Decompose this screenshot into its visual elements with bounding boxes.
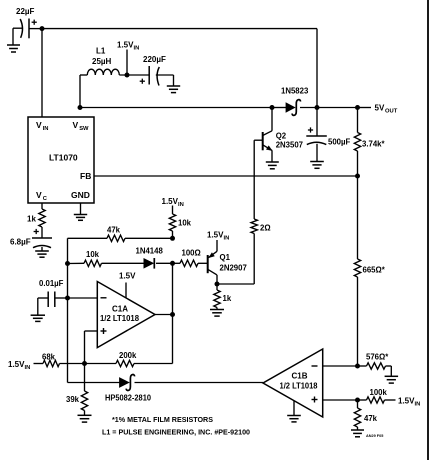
svg-text:22µF: 22µF bbox=[16, 7, 35, 16]
svg-text:1N5823: 1N5823 bbox=[281, 87, 309, 96]
wire 100Ω to Q1 base bbox=[198, 262, 208, 264]
svg-text:GND: GND bbox=[71, 190, 90, 200]
svg-text:1.5V: 1.5V bbox=[207, 231, 224, 240]
node 5V output bbox=[355, 105, 360, 110]
svg-text:47k: 47k bbox=[107, 226, 121, 235]
svg-text:665Ω*: 665Ω* bbox=[363, 266, 386, 275]
wire L1 left lead bbox=[80, 75, 87, 108]
node Q1 collector bbox=[215, 282, 220, 287]
svg-text:1k: 1k bbox=[27, 215, 36, 224]
wire 500µF top lead bbox=[316, 108, 318, 137]
node VIN top bbox=[40, 26, 45, 31]
wire 200k left lead bbox=[85, 363, 117, 365]
svg-text:1.5V: 1.5V bbox=[119, 272, 136, 281]
node Q2 collector tap bbox=[270, 105, 275, 110]
svg-text:IN: IN bbox=[415, 402, 421, 408]
node L1/1.5VIN bbox=[125, 73, 130, 78]
wire rail segment bbox=[317, 107, 358, 109]
wire 47k bottom lead bbox=[357, 427, 359, 430]
svg-text:100Ω: 100Ω bbox=[182, 249, 201, 258]
svg-text:0.01µF: 0.01µF bbox=[39, 279, 64, 288]
wire 5VOUT lead bbox=[358, 107, 372, 109]
wire GND pin bbox=[80, 203, 82, 215]
wire FB line bbox=[94, 175, 358, 177]
svg-text:500µF: 500µF bbox=[328, 138, 351, 147]
wire 500µF bottom lead bbox=[316, 144, 318, 162]
diode D3 HP5082-2810 bbox=[105, 375, 152, 403]
wire output column bbox=[134, 263, 173, 363]
ground 22µF bbox=[7, 45, 20, 52]
svg-text:1k: 1k bbox=[223, 294, 232, 303]
wire C1B minus input bbox=[323, 365, 358, 367]
svg-text:SW: SW bbox=[79, 126, 89, 132]
svg-text:AN29 F05: AN29 F05 bbox=[366, 434, 383, 438]
wire 0.01µF left lead bbox=[38, 298, 48, 315]
wire rail to diode bbox=[272, 107, 286, 109]
label notes bbox=[102, 415, 250, 437]
ground Q1 1k bbox=[210, 310, 224, 317]
resistor R-VC 1k bbox=[27, 209, 45, 227]
op-amp C1B 1/2 LT1018 bbox=[263, 349, 323, 417]
wire 68k right lead bbox=[60, 363, 85, 365]
svg-text:2N3507: 2N3507 bbox=[276, 141, 303, 150]
svg-text:220µF: 220µF bbox=[143, 55, 166, 64]
ground 6.8µF bbox=[35, 251, 49, 257]
op-amp C1A 1/2 LT1018 bbox=[97, 282, 155, 348]
wire 1k to 6.8µF bbox=[41, 227, 43, 238]
wire 6.8µF to ground bbox=[41, 247, 43, 251]
node 47k/output col top bbox=[170, 236, 175, 241]
svg-text:C1A: C1A bbox=[112, 305, 128, 314]
svg-text:*1% METAL FILM RESISTORS: *1% METAL FILM RESISTORS bbox=[112, 415, 213, 424]
node comparator output col bbox=[170, 261, 175, 266]
node 10k left bbox=[65, 261, 70, 266]
svg-text:2Ω: 2Ω bbox=[260, 224, 271, 233]
wire 47k line right bbox=[125, 237, 173, 239]
wire 0.01µF right lead bbox=[55, 297, 98, 299]
label figure number bbox=[366, 434, 383, 438]
ground 500µF bbox=[310, 162, 324, 169]
node FB junction bbox=[355, 174, 360, 179]
wire 1k to ground bbox=[216, 308, 218, 310]
svg-text:10k: 10k bbox=[86, 250, 100, 259]
wire 2Ω to Q1 collector bbox=[217, 234, 254, 285]
wire 22µF left lead bbox=[13, 28, 22, 45]
wire C1B V- tick bbox=[293, 401, 295, 416]
wire C1A output bbox=[155, 314, 173, 316]
ground 0.01µF bbox=[31, 315, 45, 321]
resistor R14 47k (C1B) bbox=[354, 408, 377, 427]
transistor Q2 2N3507 bbox=[263, 108, 303, 163]
node VSW/L1 bbox=[78, 105, 83, 110]
resistor R9 68k bbox=[42, 353, 60, 367]
svg-text:1.5V: 1.5V bbox=[8, 360, 25, 369]
wire diode to node bbox=[300, 107, 317, 109]
svg-text:V: V bbox=[36, 120, 42, 130]
capacitor C2 220µF bbox=[140, 55, 166, 86]
border right edge bbox=[427, 0, 429, 460]
svg-text:200k: 200k bbox=[119, 351, 137, 360]
wire 10k to node bbox=[172, 231, 174, 238]
svg-text:V: V bbox=[36, 190, 42, 200]
svg-text:IN: IN bbox=[178, 202, 184, 208]
node C1A output bbox=[170, 312, 175, 317]
ground LT1070 GND bbox=[74, 215, 87, 221]
wire 68k left lead bbox=[34, 363, 44, 365]
ground 576Ω bbox=[385, 376, 399, 383]
svg-text:HP5082-2810: HP5082-2810 bbox=[105, 394, 152, 403]
diode D2 1N4148 bbox=[136, 247, 164, 269]
wire 47k top lead bbox=[357, 400, 359, 408]
wire minus col to diode bbox=[68, 382, 120, 384]
wire C1A supply tick bbox=[125, 283, 127, 299]
wire C1A plus input bbox=[85, 331, 98, 364]
wire C1B plus input bbox=[323, 399, 358, 401]
node top-rail join bbox=[315, 105, 320, 110]
svg-text:L1 = PULSE ENGINEERING, INC. #: L1 = PULSE ENGINEERING, INC. #PE-92100 bbox=[102, 427, 250, 436]
capacitor C3 6.8µF bbox=[10, 229, 52, 248]
resistor R7 100Ω bbox=[180, 249, 201, 267]
svg-text:1.5V: 1.5V bbox=[162, 197, 179, 206]
resistor R2 2Ω bbox=[251, 219, 271, 234]
label 1.5VIN (68k) bbox=[8, 360, 30, 371]
svg-text:L1: L1 bbox=[96, 47, 106, 56]
wire Q1 1k lead bbox=[216, 284, 218, 290]
ground 47k bbox=[351, 430, 364, 437]
ground 39k bbox=[78, 415, 92, 422]
capacitor C5 0.01µF bbox=[39, 279, 64, 307]
svg-text:10k: 10k bbox=[178, 219, 192, 228]
resistor R1 3.74k* bbox=[354, 133, 385, 152]
ground Q2 emitter bbox=[266, 162, 279, 169]
wire 100k left lead bbox=[358, 399, 367, 401]
wire 665 top lead bbox=[357, 176, 359, 259]
wire 22µF right lead bbox=[29, 28, 42, 30]
svg-text:IN: IN bbox=[134, 46, 140, 52]
svg-text:47k: 47k bbox=[364, 414, 378, 423]
node C1B plus bbox=[355, 398, 360, 403]
wire top rail bbox=[42, 29, 317, 108]
capacitor C4 500µF bbox=[306, 127, 350, 146]
ground C1B bbox=[287, 416, 301, 422]
wire 10k left lead bbox=[68, 262, 85, 264]
resistor R13 100k bbox=[367, 388, 388, 403]
wire 10k to diode bbox=[102, 262, 144, 264]
wire 10k tick bbox=[172, 206, 174, 215]
resistor R10 39k bbox=[66, 391, 88, 411]
resistor R4 10k (pullup) bbox=[169, 214, 191, 231]
svg-text:68k: 68k bbox=[42, 353, 56, 362]
label 1.5V (C1A supply) bbox=[119, 272, 136, 281]
svg-text:5V: 5V bbox=[375, 104, 385, 113]
resistor R12 576Ω* bbox=[366, 353, 389, 370]
inductor L1 25µH bbox=[87, 47, 119, 76]
svg-text:1/2 LT1018: 1/2 LT1018 bbox=[280, 382, 319, 391]
node minus input bbox=[65, 296, 70, 301]
svg-text:OUT: OUT bbox=[385, 109, 398, 115]
wire left column bbox=[67, 264, 69, 383]
svg-text:IN: IN bbox=[224, 236, 230, 242]
capacitor C1 22µF bbox=[16, 7, 37, 38]
wire 100Ω left lead bbox=[173, 262, 181, 264]
resistor R5 47k bbox=[107, 226, 125, 242]
diode D1 1N5823 bbox=[281, 87, 309, 116]
svg-text:6.8µF: 6.8µF bbox=[10, 238, 31, 247]
svg-text:IN: IN bbox=[43, 126, 49, 132]
svg-text:1.5V: 1.5V bbox=[117, 41, 134, 50]
wire 39k bottom lead bbox=[84, 411, 86, 416]
resistor R11 665Ω* bbox=[354, 259, 385, 277]
wire L1 right lead bbox=[119, 74, 149, 76]
svg-text:3.74k*: 3.74k* bbox=[362, 140, 386, 149]
svg-text:100k: 100k bbox=[370, 388, 388, 397]
wire 220µF right lead bbox=[156, 75, 174, 86]
svg-text:576Ω*: 576Ω* bbox=[366, 353, 389, 362]
resistor R3 1k (Q1) bbox=[214, 290, 232, 308]
wire 39k top lead bbox=[84, 364, 86, 392]
node plus input junction bbox=[82, 361, 87, 366]
svg-text:Q2: Q2 bbox=[276, 132, 287, 141]
wire 47k line left bbox=[68, 238, 108, 263]
resistor R8 200k bbox=[116, 351, 137, 367]
svg-text:1N4148: 1N4148 bbox=[136, 247, 164, 256]
svg-text:IN: IN bbox=[25, 365, 31, 371]
svg-text:2N2907: 2N2907 bbox=[220, 264, 247, 273]
svg-text:1/2 LT1018: 1/2 LT1018 bbox=[100, 314, 140, 323]
svg-text:FB: FB bbox=[80, 171, 91, 181]
svg-text:Q1: Q1 bbox=[220, 253, 231, 262]
wire VSW rail bbox=[80, 107, 272, 109]
transistor Q1 2N2907 bbox=[208, 240, 247, 284]
node C1B minus bbox=[355, 364, 360, 369]
wire 3.74k bottom lead bbox=[357, 151, 359, 176]
wire 1.5VIN tick bbox=[126, 50, 128, 76]
wire VC pin bbox=[41, 203, 43, 209]
wire diode to C1B output bbox=[135, 382, 264, 384]
wire 576 leads bbox=[358, 366, 392, 376]
IC U1 LT1070 bbox=[28, 117, 94, 203]
wire Q2 base bbox=[254, 140, 263, 219]
svg-text:LT1070: LT1070 bbox=[49, 153, 78, 163]
label 1.5VIN (10k pullup) bbox=[162, 197, 184, 208]
label 1.5VIN (Q1) bbox=[207, 231, 229, 242]
label 5VOUT bbox=[375, 104, 398, 115]
wire 3.74k top lead bbox=[357, 108, 359, 133]
resistor R6 10k bbox=[84, 250, 102, 267]
ground 220µF bbox=[167, 86, 180, 93]
wire VIN pin bbox=[41, 29, 43, 117]
label 1.5VIN (L1 node) bbox=[117, 41, 139, 52]
svg-text:1.5V: 1.5V bbox=[398, 397, 415, 406]
wire diode to node bbox=[156, 262, 173, 264]
wire 100k right lead bbox=[385, 399, 396, 401]
label 1.5VIN (100k) bbox=[398, 397, 420, 408]
svg-text:39k: 39k bbox=[66, 395, 80, 404]
wire 665 to minus node bbox=[357, 277, 359, 366]
svg-text:V: V bbox=[73, 120, 79, 130]
svg-text:C1B: C1B bbox=[292, 372, 308, 381]
svg-text:25µH: 25µH bbox=[92, 57, 112, 66]
